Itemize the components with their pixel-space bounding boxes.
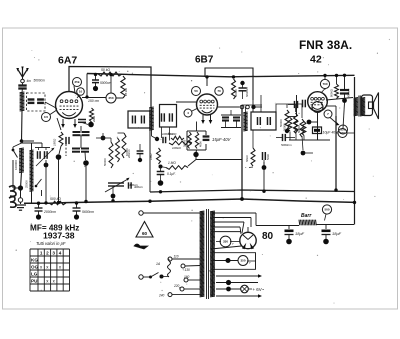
rail A junction dots — [159, 188, 338, 193]
label 400cm tuning — [129, 183, 139, 187]
screen line 6A7 — [82, 97, 123, 100]
svg-text:50 kΩ: 50 kΩ — [101, 68, 110, 72]
svg-text:1: 1 — [40, 251, 43, 256]
svg-text:6A7: 6A7 — [58, 55, 77, 67]
bus junction dots bottom — [37, 197, 356, 205]
svg-text:5600cm: 5600cm — [82, 210, 94, 214]
HV secondary lead — [211, 258, 256, 263]
coupling cap 5000cm det — [276, 134, 295, 147]
cap 0.1uF — [157, 167, 176, 186]
det line to 1M chain — [249, 166, 253, 169]
band switch node — [20, 139, 34, 143]
svg-text:5000cm: 5000cm — [34, 79, 46, 83]
heater arrow 2 — [252, 294, 262, 298]
wire L3 top — [31, 143, 33, 150]
label +6V — [253, 287, 265, 292]
volume tops wire — [276, 104, 302, 118]
wire 4 to tube — [192, 108, 198, 111]
rectifier anode lines — [211, 232, 242, 249]
fuse squiggle symbol — [134, 244, 148, 249]
svg-text:4: 4 — [59, 251, 62, 256]
output transformer secondary — [361, 98, 365, 116]
bus junction dots top — [94, 73, 346, 79]
svg-text:500: 500 — [340, 131, 345, 135]
wire padder top — [41, 143, 43, 148]
tube label 6B7 — [195, 55, 214, 66]
wire under 6A7 left — [57, 118, 61, 130]
screen resistor 50000 6B7 — [232, 79, 239, 99]
svg-text:PU: PU — [31, 279, 38, 284]
svg-text:25000: 25000 — [25, 180, 29, 188]
wire bus corner to B+ rail — [354, 203, 356, 225]
antenna — [16, 67, 29, 80]
dial lamp — [216, 285, 252, 293]
wire to padder section — [22, 142, 43, 144]
filter choke Barr — [299, 213, 316, 225]
volume resistor third — [300, 119, 304, 137]
pin circle 0.5 left of 6A7 — [42, 113, 51, 122]
wire L2 to junction — [21, 172, 22, 188]
screen resistor 50k — [98, 68, 122, 76]
bias cap — [66, 137, 69, 156]
wire 0.5 circle to tube — [50, 111, 56, 115]
bus cap 2000cm — [35, 203, 57, 219]
main ground bus — [24, 199, 355, 203]
label 150cm — [88, 99, 99, 103]
svg-text:5000cm: 5000cm — [100, 81, 112, 85]
label 10uF 40V — [323, 131, 339, 135]
note 1937-38 — [43, 231, 75, 241]
antenna terminal — [21, 77, 25, 83]
grid cap 42 — [288, 100, 305, 108]
mains lead bottom with switch — [139, 273, 166, 280]
wire L3 to bus — [31, 196, 33, 203]
resistor 25k vertical — [121, 76, 128, 98]
6B7 screen bypass caps — [221, 110, 241, 128]
svg-text:10: 10 — [79, 90, 83, 94]
antenna series cap — [18, 83, 26, 89]
cathode junction blob — [193, 150, 198, 160]
cap 400cm bottom — [129, 182, 144, 189]
label 4m/5000cm near antenna — [27, 79, 46, 84]
tap 240 — [158, 293, 200, 298]
svg-text:2MΩ: 2MΩ — [92, 115, 96, 123]
label 1M horizontal resistor — [168, 161, 176, 165]
cathode electrolytic 15uF — [203, 137, 210, 140]
power transformer core — [207, 209, 209, 299]
pin circle 700 — [320, 79, 329, 88]
svg-text:1 MΩ: 1 MΩ — [168, 161, 176, 165]
42 inner cathode circle — [312, 102, 323, 113]
svg-text:4000: 4000 — [199, 141, 203, 147]
pin circle 250 — [106, 93, 116, 103]
tap 110 — [168, 255, 200, 262]
filter cap 2 18uF — [322, 225, 342, 245]
CAV line — [217, 105, 262, 109]
cathode resistor 42 — [297, 122, 306, 136]
output transformer primary — [354, 98, 358, 116]
bus cap 5600cm — [73, 203, 95, 220]
volume wiper wire — [301, 136, 313, 155]
svg-text:150 cm: 150 cm — [88, 99, 99, 103]
tracking cap pair upper — [73, 126, 90, 148]
IF1 bottom junction — [152, 127, 170, 141]
IF3 top wire — [242, 95, 262, 112]
42 cathode rail — [289, 132, 330, 141]
coupling cap 1000cm — [162, 132, 173, 143]
svg-text:500: 500 — [324, 208, 329, 212]
field coil stubs — [336, 132, 355, 134]
svg-text:10000: 10000 — [125, 148, 129, 156]
svg-text:160: 160 — [184, 275, 190, 279]
svg-text:350: 350 — [240, 259, 245, 263]
tuning cap blob — [111, 186, 116, 201]
wire pins to tube top — [74, 86, 79, 98]
wire antenna coil to band coil — [21, 111, 24, 141]
aerial coupling coil L3 — [25, 150, 34, 191]
wire 42 bottom — [317, 111, 319, 140]
label 80 — [262, 231, 274, 242]
6A7 plate rail — [69, 67, 151, 108]
tuning cap variable — [105, 178, 130, 192]
svg-text:KG: KG — [31, 258, 38, 263]
svg-text:400cm: 400cm — [129, 183, 139, 187]
svg-text:8000cm: 8000cm — [347, 88, 351, 98]
svg-text:3: 3 — [52, 251, 55, 256]
cathode return line — [188, 160, 242, 167]
title FNR 38A — [299, 38, 352, 52]
junction below 1M — [159, 165, 163, 169]
6A7 cathode arrows — [61, 119, 77, 128]
svg-text:2: 2 — [46, 251, 49, 256]
rail line A — [150, 190, 355, 192]
det cap — [262, 152, 270, 170]
svg-text:5000Ω: 5000Ω — [168, 132, 177, 136]
svg-text:15μF-40V: 15μF-40V — [212, 137, 232, 142]
bus resistor 500k — [49, 197, 66, 205]
wire bus to 6B7 grid cap — [206, 77, 208, 86]
cathode box cap 42 — [313, 127, 322, 134]
svg-text:180Ω: 180Ω — [53, 138, 57, 146]
svg-text:4m: 4m — [27, 79, 32, 83]
tap 130 — [181, 264, 200, 272]
cathode resistor 30000 — [183, 132, 192, 149]
paper noise speckles — [16, 39, 390, 304]
svg-text:50: 50 — [194, 89, 198, 93]
svg-text:250: 250 — [108, 96, 113, 100]
svg-text:220: 220 — [173, 284, 180, 288]
6B7 arrows under tube — [201, 115, 212, 124]
svg-text:FNR 38A.: FNR 38A. — [299, 38, 352, 52]
svg-text:130: 130 — [185, 268, 191, 272]
wave switch S2 — [32, 179, 42, 196]
tube label 42 (title) — [310, 54, 322, 66]
svg-text:50000: 50000 — [297, 125, 301, 133]
svg-text:6B7: 6B7 — [195, 55, 214, 66]
label 15uF-40V — [212, 137, 232, 142]
svg-text:100000: 100000 — [14, 160, 18, 170]
IF3 caps — [258, 117, 271, 125]
cap right of IF3 to rail — [263, 162, 265, 191]
resistor 10000 vertical — [122, 133, 129, 158]
svg-text:100kΩ: 100kΩ — [172, 146, 182, 150]
42 junction blob — [307, 120, 318, 125]
svg-text:500 kΩ: 500 kΩ — [50, 197, 61, 201]
heater arrow 1 — [252, 274, 262, 278]
42 grid feed wire — [288, 95, 297, 117]
tube 6B7 envelope — [197, 94, 218, 115]
svg-text:5000: 5000 — [266, 154, 270, 160]
svg-text:0.1μF.: 0.1μF. — [167, 172, 176, 176]
pin circle 500 field — [338, 129, 347, 138]
svg-text:1MΩ: 1MΩ — [149, 153, 153, 160]
svg-text:330: 330 — [223, 240, 228, 244]
resistor 1M horizontal — [160, 166, 188, 170]
screen cap 5000cm 6B7 — [239, 81, 250, 99]
ballast to tap110 — [168, 259, 169, 261]
trimmer caps in dashed box — [27, 93, 58, 111]
padder junction blob — [44, 160, 49, 202]
mains lead top — [139, 211, 200, 215]
antenna coil L1 — [20, 89, 25, 112]
svg-text:700: 700 — [322, 82, 327, 86]
tracking cap pair lower — [72, 149, 89, 202]
oscillator coil L2 100000 — [14, 148, 24, 173]
6A7 top anode cap — [78, 120, 88, 125]
resistor 100000 vertical — [116, 138, 120, 162]
grid resistor 42 a — [283, 118, 292, 132]
svg-text:+ 6V~: + 6V~ — [253, 287, 265, 292]
IF1 right box — [160, 105, 177, 128]
6B7 cathode loop — [187, 122, 206, 151]
output transformer core — [359, 96, 360, 117]
tap 160 — [184, 275, 200, 282]
pin circle 10k on 6A7 — [77, 88, 85, 96]
svg-text:8000Ω: 8000Ω — [330, 89, 334, 97]
tube 80 envelope — [240, 227, 256, 249]
screen bypass cap 5000cm — [92, 74, 112, 91]
svg-text:0.5: 0.5 — [44, 115, 49, 119]
vertical x150 IF1 to lineA — [149, 128, 151, 192]
svg-text:50000: 50000 — [279, 119, 283, 127]
pin circle 500 barr — [322, 205, 331, 214]
svg-text:80: 80 — [262, 231, 274, 242]
svg-text:25k: 25k — [74, 80, 79, 84]
power transformer primary winding — [200, 211, 205, 297]
svg-text:50000: 50000 — [283, 123, 287, 131]
svg-text:18μF: 18μF — [295, 231, 305, 236]
vertical wire x87 — [85, 74, 88, 99]
resistor 100k horizontal — [169, 141, 192, 150]
B+ rail — [256, 225, 354, 226]
filter cap 1 18uF — [285, 226, 305, 245]
grid resistor 42 b — [294, 120, 298, 134]
note tutti valori — [36, 241, 66, 246]
alignment table — [30, 249, 70, 291]
wires osc tops — [103, 133, 124, 142]
cathode resistor 4000 — [195, 132, 202, 149]
speaker — [362, 93, 379, 120]
IF1 left box — [128, 111, 150, 128]
resistor 50000 vertical — [103, 142, 113, 168]
tube 42 envelope — [308, 92, 328, 112]
pin circle 350v — [238, 256, 251, 266]
svg-text:50000: 50000 — [103, 158, 107, 166]
triangle 60 symbol — [136, 222, 153, 238]
wire bus to 700 circle — [324, 76, 326, 80]
ground symbol left — [15, 202, 26, 210]
svg-text:30000: 30000 — [183, 139, 187, 147]
arrow from 42 cathode — [330, 118, 340, 126]
heater lead 2 — [216, 280, 258, 285]
junction blob antenna ground — [18, 185, 23, 190]
main B+ bus — [87, 74, 355, 77]
svg-text:Barr: Barr — [301, 213, 312, 219]
pin circle 70 on 6B7 — [215, 87, 223, 95]
svg-text:5000cm: 5000cm — [281, 143, 292, 147]
pickup input marks — [9, 186, 16, 208]
svg-text:OG: OG — [31, 265, 39, 270]
IF1 coil — [149, 107, 154, 130]
pin circle 330v — [220, 236, 234, 247]
rectifier top leads — [212, 213, 256, 234]
switch S1 left branch — [12, 143, 22, 188]
svg-text:50000: 50000 — [234, 89, 238, 97]
screen cap 8000cm 42 — [340, 76, 351, 129]
bias resistor 180 — [53, 132, 64, 202]
grid resistor 1M vertical — [149, 148, 161, 164]
wire 700 to tube — [321, 89, 325, 94]
IF3 box — [251, 112, 276, 130]
cathode resistor horizontal — [168, 132, 184, 140]
left column cap 220cm — [127, 144, 143, 162]
vertical wire x242 — [241, 105, 243, 199]
pin circle 4 on 6B7 — [184, 109, 192, 117]
vertical x336 — [326, 106, 336, 190]
wire 250 to bus — [110, 74, 112, 93]
IF1 left caps — [133, 116, 145, 124]
label 1A fuse — [156, 262, 161, 266]
chassis terminal — [18, 190, 22, 202]
6B7 top bracket — [205, 68, 253, 100]
det resistor 50k — [245, 130, 255, 166]
rectifier 350 loop box — [211, 253, 256, 270]
svg-text:1A: 1A — [156, 262, 161, 266]
svg-text:25 kΩ: 25 kΩ — [124, 87, 128, 97]
screen resistor 8000 42 — [330, 76, 339, 99]
svg-text:LG: LG — [31, 272, 38, 277]
tube 6A7 envelope — [56, 92, 83, 119]
vertical x354.5 — [354, 77, 356, 202]
svg-text:42: 42 — [310, 54, 322, 66]
IF1 right caps — [162, 113, 173, 121]
plate wire 42 to OT — [326, 98, 353, 101]
pin circle 250 on 42 — [339, 125, 348, 134]
svg-text:18μF: 18μF — [332, 231, 342, 236]
svg-text:70: 70 — [217, 89, 221, 93]
svg-text:5000cm: 5000cm — [245, 86, 249, 97]
svg-text:1937-38: 1937-38 — [43, 231, 75, 241]
barr circle stub — [325, 214, 327, 221]
volume resistor 50000 — [279, 110, 289, 133]
svg-text:60: 60 — [142, 231, 148, 236]
resistor 2M under 6A7 — [88, 108, 96, 127]
svg-text:50kΩ: 50kΩ — [245, 154, 249, 162]
svg-text:110: 110 — [174, 255, 179, 259]
svg-text:Tutti valori in pF: Tutti valori in pF — [36, 241, 66, 246]
note MF 489 kHz — [30, 224, 79, 233]
pin circle 50 on 6B7 — [192, 87, 201, 96]
tube label 6A7 — [58, 55, 77, 67]
heater lead 1 — [216, 275, 252, 277]
pin circle 7 on 42 — [324, 110, 332, 118]
ballast wavy resistor — [166, 261, 171, 277]
volume resistor 250000 — [294, 113, 298, 133]
padder trimmer caps — [35, 148, 55, 167]
power transformer secondary winding — [210, 211, 215, 297]
svg-text:2000cm: 2000cm — [43, 210, 56, 214]
heater lead 3 — [216, 295, 252, 297]
osc junction blob — [96, 136, 105, 141]
pin circle 25k on 6A7 — [73, 78, 82, 87]
svg-text:240: 240 — [158, 294, 165, 298]
tap 220 — [173, 284, 200, 291]
6B7 grid line left — [176, 100, 253, 112]
IF3 coil — [243, 112, 247, 131]
